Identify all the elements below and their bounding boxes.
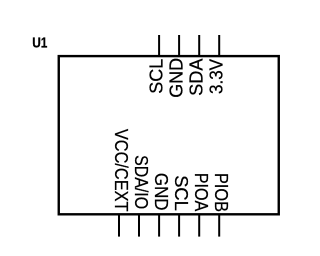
IC U1 body [59,56,279,214]
svg-text:GND: GND [167,58,187,98]
pin GND top wire [178,35,180,57]
svg-text:PIOB: PIOB [211,173,231,212]
svg-text:GND: GND [151,173,171,211]
svg-text:SDA/IO: SDA/IO [131,155,151,209]
svg-text:SDA: SDA [187,59,207,96]
pin SCL top wire [158,35,160,57]
pin GND bottom wire [158,214,160,237]
pin SDA top wire [198,35,200,57]
svg-text:SCL: SCL [171,175,191,211]
pin PIOA bottom wire [198,214,200,237]
pin 3.3V top wire [218,35,220,57]
pin PIOB bottom wire [218,214,220,237]
svg-text:SCL: SCL [147,59,167,94]
svg-text:U1: U1 [32,36,47,52]
svg-text:VCC/CEXT: VCC/CEXT [111,129,131,212]
svg-text:PIOA: PIOA [191,173,211,212]
svg-text:3.3V: 3.3V [207,59,227,94]
pin VCC/CEXT bottom wire [118,214,120,237]
pin SCL bottom wire [178,214,180,237]
pin SDA/IO bottom wire [138,214,140,237]
